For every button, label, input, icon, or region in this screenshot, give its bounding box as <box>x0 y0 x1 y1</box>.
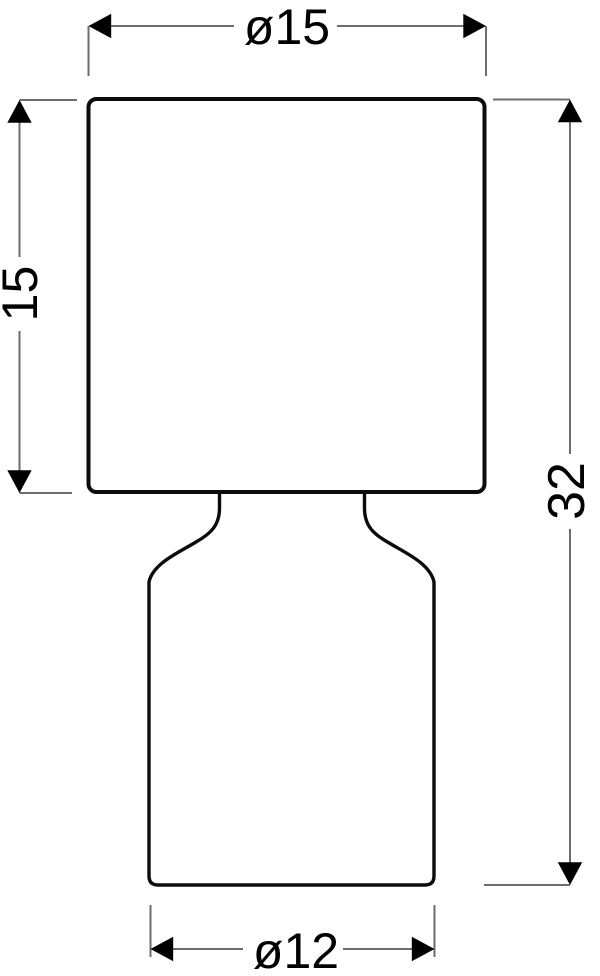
lamp base outline <box>149 490 434 885</box>
dim 15: extension line bottom <box>20 492 73 494</box>
dim ø12: left arrow <box>151 937 174 961</box>
lampshade outline <box>89 99 485 492</box>
dim ø15: extension line left <box>88 26 90 76</box>
dim 32: extension line top <box>493 99 570 101</box>
dim ø12: extension line left <box>150 905 152 957</box>
dim ø15: line left segment <box>108 25 234 27</box>
dim ø15: extension line right <box>485 26 487 76</box>
dim 15: extension line top <box>20 99 78 101</box>
dim 32: line upper segment <box>569 120 571 454</box>
dim 32: extension line bottom <box>484 884 570 886</box>
dim ø15: left arrow <box>89 14 112 38</box>
dim ø12: extension line right <box>434 905 436 957</box>
dim 32: bottom arrow <box>558 862 582 885</box>
dim ø12: line right segment <box>343 948 415 950</box>
svg-text:32: 32 <box>538 462 596 520</box>
dim 32: top arrow <box>558 100 582 123</box>
dim ø12: right arrow <box>412 937 435 961</box>
dim ø15: right arrow <box>463 14 486 38</box>
dim ø15: line right segment <box>337 25 466 27</box>
dim 32: line lower segment <box>569 529 571 864</box>
svg-text:15: 15 <box>0 266 48 322</box>
svg-text:ø15: ø15 <box>244 0 330 55</box>
dim 15: top arrow <box>7 100 31 123</box>
dim 15: line lower segment <box>19 331 21 473</box>
dim ø12: line left segment <box>171 948 243 950</box>
svg-text:ø12: ø12 <box>253 923 339 976</box>
dim 15: line upper segment <box>19 120 21 257</box>
dim 15: bottom arrow <box>7 470 31 493</box>
